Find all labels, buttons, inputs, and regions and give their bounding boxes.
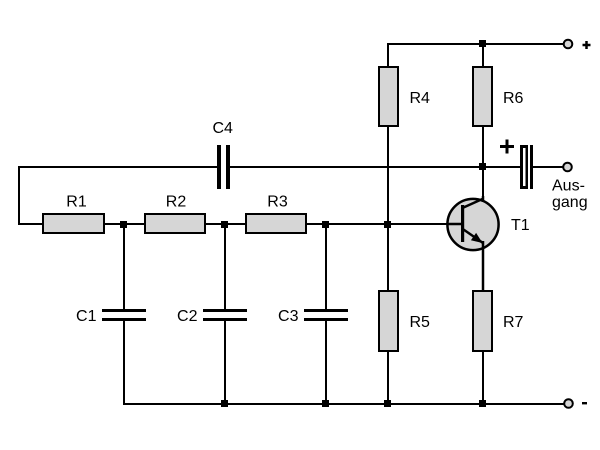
svg-text:R4: R4 — [410, 90, 431, 107]
svg-text:C1: C1 — [76, 308, 97, 325]
svg-text:R7: R7 — [503, 314, 524, 331]
svg-text:R3: R3 — [267, 194, 288, 211]
svg-text:Aus-: Aus- — [552, 178, 585, 195]
svg-text:gang: gang — [552, 194, 588, 211]
svg-text:C4: C4 — [213, 120, 234, 137]
svg-text:R2: R2 — [166, 194, 187, 211]
svg-text:T1: T1 — [511, 217, 530, 234]
svg-text:R5: R5 — [410, 314, 431, 331]
svg-text:C2: C2 — [177, 308, 198, 325]
svg-text:R1: R1 — [66, 194, 87, 211]
svg-text:C3: C3 — [278, 308, 299, 325]
svg-text:R6: R6 — [503, 90, 524, 107]
